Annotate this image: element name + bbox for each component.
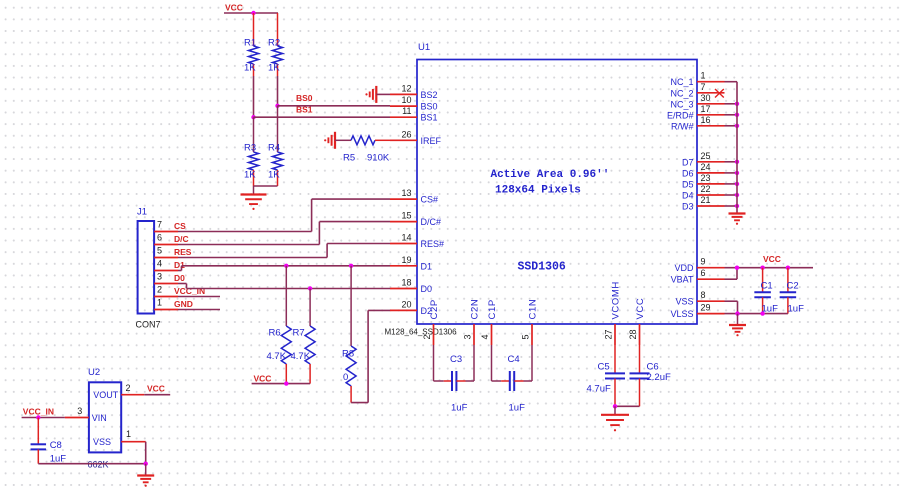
svg-text:2.2uF: 2.2uF xyxy=(647,372,671,383)
svg-text:SSD1306: SSD1306 xyxy=(518,261,566,274)
wire R3/R4 bottoms xyxy=(254,185,278,187)
svg-text:26: 26 xyxy=(401,129,411,139)
svg-text:VCC: VCC xyxy=(254,374,272,384)
wire pin to right bus xyxy=(725,205,738,207)
wire CS net xyxy=(178,199,390,231)
net label BS0 xyxy=(296,93,313,103)
junction VSS/VLSS xyxy=(735,311,739,315)
junction right bus xyxy=(735,193,739,197)
svg-text:28: 28 xyxy=(628,329,638,339)
wire pin to right bus xyxy=(725,172,738,174)
wire R8 bottom to D2 xyxy=(351,310,390,402)
svg-text:D0: D0 xyxy=(421,284,433,294)
svg-text:CS#: CS# xyxy=(421,195,439,205)
capacitor C5 4.7uF xyxy=(587,345,626,406)
resistor R3 xyxy=(244,117,259,186)
junction C2 top xyxy=(786,266,790,270)
wire BS1 net to U1 pin 11 xyxy=(254,116,391,118)
U1 pin 29 VLSS xyxy=(670,303,724,320)
svg-text:8: 8 xyxy=(701,290,706,300)
ground below VSS xyxy=(729,314,746,337)
U1 pin 14 RES# xyxy=(390,233,444,250)
wire GND stub from J1 xyxy=(178,309,220,311)
junction right bus xyxy=(735,160,739,164)
wire VSS down to ground rail xyxy=(145,442,147,464)
svg-text:19: 19 xyxy=(401,255,411,265)
capacitor C2 1uF xyxy=(780,268,804,315)
wire pin to right bus xyxy=(725,183,738,185)
wire C2P down to C3 xyxy=(434,345,452,381)
junction VSS/ground rail xyxy=(144,462,148,466)
svg-text:128x64 Pixels: 128x64 Pixels xyxy=(495,185,581,197)
svg-text:C6: C6 xyxy=(647,362,659,373)
no-connect X on NC_2 xyxy=(715,89,724,98)
svg-text:10: 10 xyxy=(401,95,411,105)
wire right vertical bus xyxy=(736,82,738,213)
junction right bus xyxy=(735,124,739,128)
U1 pin 6 VBAT xyxy=(671,268,725,285)
capacitor C8 1uF xyxy=(31,418,67,465)
svg-text:C1: C1 xyxy=(761,281,773,292)
svg-text:25: 25 xyxy=(701,151,711,161)
junction R6/VCC rail xyxy=(284,381,288,385)
U1 pin 18 D0 xyxy=(390,278,432,295)
text 662K under U2 xyxy=(88,460,109,470)
svg-text:U1: U1 xyxy=(418,42,430,53)
svg-text:11: 11 xyxy=(402,106,411,116)
op IC U1 SSD1306 body xyxy=(417,42,697,324)
junction VCC_IN / C8 xyxy=(36,415,40,419)
wire C3 to C2N xyxy=(456,345,474,381)
ground below C5/C6 xyxy=(601,406,629,431)
svg-text:R2: R2 xyxy=(268,38,280,49)
wire pin to right bus xyxy=(725,194,738,196)
svg-text:BS1: BS1 xyxy=(421,113,438,123)
connector J1 body xyxy=(137,207,154,314)
wire pin to right bus xyxy=(725,103,738,105)
svg-text:6: 6 xyxy=(701,268,706,278)
svg-text:GND: GND xyxy=(174,299,193,309)
svg-text:C3: C3 xyxy=(450,354,462,365)
svg-text:D1: D1 xyxy=(421,261,433,271)
svg-text:3: 3 xyxy=(77,406,82,416)
svg-text:VIN: VIN xyxy=(92,413,107,423)
ground below right bus xyxy=(729,214,746,225)
U1 pin 5 C1N xyxy=(521,299,539,345)
U1 pin 1 NC_1 xyxy=(670,71,724,88)
ground below R3/R4 xyxy=(241,186,267,210)
svg-text:R7: R7 xyxy=(293,328,305,339)
net label VCC (U2 out) xyxy=(147,384,165,394)
svg-text:2: 2 xyxy=(422,334,432,339)
U1 pin 8 VSS xyxy=(675,290,724,307)
svg-text:1uF: 1uF xyxy=(509,403,526,414)
svg-text:D7: D7 xyxy=(682,157,694,167)
wire VCC_IN to VIN xyxy=(22,417,65,419)
svg-text:VSS: VSS xyxy=(93,437,111,447)
svg-text:4.7uF: 4.7uF xyxy=(587,384,611,395)
svg-text:1: 1 xyxy=(701,71,706,81)
svg-text:Active Area 0.96'': Active Area 0.96'' xyxy=(491,169,610,181)
U1 pin 2 C2P xyxy=(422,299,440,345)
svg-text:3: 3 xyxy=(463,334,473,339)
U1 pin 25 D7 xyxy=(682,151,725,168)
svg-text:VCC_IN: VCC_IN xyxy=(174,286,205,296)
svg-text:1uF: 1uF xyxy=(451,403,468,414)
wire D/C net xyxy=(178,222,390,245)
regulator U2 body xyxy=(88,367,121,452)
wire pin to right bus xyxy=(725,125,738,127)
U1 pin 28 VCC xyxy=(628,298,646,345)
resistor R5 910K xyxy=(343,136,390,164)
U2 pin 2 VOUT xyxy=(93,383,144,400)
U1 pin 30 NC_3 xyxy=(670,93,724,110)
junction VCC rail / R1 xyxy=(251,11,255,15)
J1 pin 6 net D/C xyxy=(154,233,189,245)
svg-text:27: 27 xyxy=(604,329,614,339)
svg-text:7: 7 xyxy=(701,82,706,92)
wire VDD to VCC rail xyxy=(725,267,814,269)
svg-text:1K: 1K xyxy=(244,63,256,74)
svg-text:20: 20 xyxy=(401,299,411,309)
svg-text:5: 5 xyxy=(521,334,531,339)
junction C5 bottom xyxy=(613,404,617,408)
svg-text:C2: C2 xyxy=(787,281,799,292)
junction D1/R8 xyxy=(349,264,353,268)
svg-text:1K: 1K xyxy=(268,63,280,74)
junction C1 top xyxy=(760,266,764,270)
U1 pin 13 CS# xyxy=(390,188,438,205)
wire R2 to BS0 node xyxy=(277,76,279,106)
wire VCC rail top-left xyxy=(224,12,278,14)
U2 pin 3 VIN xyxy=(65,406,107,423)
U1 pin 20 D2 xyxy=(390,299,432,316)
wire U2 ground rail xyxy=(38,463,145,465)
svg-text:24: 24 xyxy=(701,162,711,172)
J1 pin 2 net VCC_IN xyxy=(154,285,205,297)
svg-text:R1: R1 xyxy=(244,38,256,49)
svg-text:BS0: BS0 xyxy=(421,102,438,112)
junction BS0 xyxy=(275,104,279,108)
svg-text:9: 9 xyxy=(701,257,706,267)
svg-text:1uF: 1uF xyxy=(50,454,67,465)
svg-text:14: 14 xyxy=(401,233,411,243)
svg-text:18: 18 xyxy=(401,278,411,288)
svg-text:0: 0 xyxy=(343,372,348,383)
wire D1 net xyxy=(178,266,390,271)
svg-text:CS: CS xyxy=(174,221,186,231)
J1 pin 4 net D1 xyxy=(154,259,185,271)
svg-text:RES: RES xyxy=(174,247,192,257)
svg-text:17: 17 xyxy=(701,104,711,114)
svg-text:VCC: VCC xyxy=(225,3,243,13)
junction BS1 xyxy=(251,115,255,119)
svg-text:VCOMH: VCOMH xyxy=(610,281,621,319)
resistor R4 xyxy=(268,106,283,186)
wire BS0 net to U1 pin 10 xyxy=(278,105,391,107)
svg-text:VCC_IN: VCC_IN xyxy=(23,407,54,417)
text SSD1306 inside U1 xyxy=(518,261,566,274)
svg-text:BS2: BS2 xyxy=(421,90,438,100)
svg-text:RES#: RES# xyxy=(421,239,445,249)
wire pin to right bus xyxy=(725,161,738,163)
svg-text:NC_1: NC_1 xyxy=(670,77,693,87)
U1 pin 22 D4 xyxy=(682,184,725,201)
svg-text:C8: C8 xyxy=(50,440,62,451)
wire ground to R5 xyxy=(335,139,351,141)
svg-text:D4: D4 xyxy=(682,191,694,201)
svg-text:1K: 1K xyxy=(244,170,256,181)
U1 pin 23 D5 xyxy=(682,173,725,190)
svg-text:IREF: IREF xyxy=(421,136,442,146)
text 128x64 Pixels inside U1 xyxy=(495,185,581,197)
resistor R2 xyxy=(268,13,283,76)
capacitor C6 2.2uF xyxy=(630,345,671,406)
svg-text:C1P: C1P xyxy=(487,299,498,319)
U1 pin 9 VDD xyxy=(674,257,724,274)
svg-text:D/C#: D/C# xyxy=(421,217,442,227)
svg-text:R4: R4 xyxy=(268,143,280,154)
U1 pin 26 IREF xyxy=(390,129,442,146)
junction right bus xyxy=(735,102,739,106)
U1 pin 3 C2N xyxy=(463,299,481,345)
svg-text:VCC: VCC xyxy=(635,298,646,320)
svg-text:7: 7 xyxy=(157,220,162,230)
net label VCC (pull-ups) xyxy=(254,374,272,384)
J1 pin 7 net CS xyxy=(154,220,186,232)
svg-text:910K: 910K xyxy=(367,153,390,164)
svg-text:R6: R6 xyxy=(269,328,281,339)
net label VCC_IN (U2 in) xyxy=(23,407,54,417)
U1 pin 27 VCOMH xyxy=(604,281,622,345)
svg-text:D3: D3 xyxy=(682,202,694,212)
wire C4 to C1N xyxy=(514,345,532,381)
svg-text:D/C: D/C xyxy=(174,234,189,244)
svg-text:J1: J1 xyxy=(137,207,147,218)
svg-text:M128_64_SSD1306: M128_64_SSD1306 xyxy=(385,328,458,337)
resistor R1 xyxy=(244,13,259,76)
junction D0/R7 xyxy=(308,286,312,290)
junction right bus xyxy=(735,204,739,208)
capacitor C4 1uF xyxy=(508,354,526,414)
svg-text:D5: D5 xyxy=(682,179,694,189)
svg-text:VOUT: VOUT xyxy=(93,390,119,400)
svg-text:3: 3 xyxy=(157,272,162,282)
net label VCC (right) xyxy=(763,254,781,264)
wire VCC_IN stub from J1 xyxy=(178,296,220,298)
svg-text:NC_2: NC_2 xyxy=(670,88,693,98)
junction right bus xyxy=(735,113,739,117)
svg-text:D0: D0 xyxy=(174,273,185,283)
resistor R6 4.7K xyxy=(267,266,292,384)
U1 pin 15 D/C# xyxy=(390,211,441,228)
svg-text:C1N: C1N xyxy=(527,299,538,320)
svg-text:E/RD#: E/RD# xyxy=(667,110,694,120)
svg-text:VCC: VCC xyxy=(763,254,781,264)
svg-text:4: 4 xyxy=(157,259,162,269)
junction VBAT/VDD xyxy=(735,266,739,270)
svg-text:VCC: VCC xyxy=(147,384,165,394)
svg-text:23: 23 xyxy=(701,173,711,183)
J1 pin 1 net GND xyxy=(154,298,193,310)
text M128_64_SSD1306 under U1 xyxy=(385,328,458,337)
U1 pin 10 BS0 xyxy=(390,95,438,112)
U1 pin 16 R/W# xyxy=(671,115,725,132)
capacitor C1 1uF xyxy=(754,268,778,315)
text Active Area inside U1 xyxy=(491,169,610,181)
wire D0 net xyxy=(178,284,390,289)
svg-text:2: 2 xyxy=(157,285,162,295)
svg-text:12: 12 xyxy=(401,83,411,93)
wire R1 to BS1 node xyxy=(253,76,255,117)
U1 pin 4 C1P xyxy=(480,299,498,345)
svg-text:D6: D6 xyxy=(682,168,694,178)
svg-text:C2P: C2P xyxy=(429,299,440,319)
ground below U2 xyxy=(137,464,154,487)
svg-text:15: 15 xyxy=(401,211,411,221)
resistor R7 4.7K xyxy=(291,289,316,384)
svg-text:VSS: VSS xyxy=(675,297,693,307)
net label BS1 xyxy=(296,105,313,115)
svg-text:C4: C4 xyxy=(508,354,520,365)
svg-text:R5: R5 xyxy=(343,153,355,164)
svg-text:1K: 1K xyxy=(268,170,280,181)
wire BS2 ground to U1 pin 12 xyxy=(376,93,390,95)
svg-text:4.7K: 4.7K xyxy=(267,351,287,362)
svg-text:1: 1 xyxy=(126,429,131,439)
ground for R5 (rotated) xyxy=(324,132,335,149)
svg-text:C5: C5 xyxy=(598,362,610,373)
svg-text:2: 2 xyxy=(126,383,131,393)
svg-text:13: 13 xyxy=(401,188,411,198)
svg-text:29: 29 xyxy=(701,303,711,313)
U1 pin 17 E/RD# xyxy=(667,104,725,121)
svg-text:R8: R8 xyxy=(342,349,354,360)
svg-text:6: 6 xyxy=(157,233,162,243)
ground on BS2 (rotated) xyxy=(365,86,376,103)
capacitor C3 1uF xyxy=(450,354,468,414)
junction C1 bottom xyxy=(760,311,764,315)
wire VOUT to VCC xyxy=(144,394,170,396)
wire VSS down xyxy=(725,301,738,313)
U1 pin 21 D3 xyxy=(682,195,725,212)
U1 pin 24 D6 xyxy=(682,162,725,179)
svg-text:22: 22 xyxy=(701,184,711,194)
svg-text:CON7: CON7 xyxy=(136,320,161,330)
svg-text:C2N: C2N xyxy=(469,299,480,320)
wire VBAT up to VDD rail xyxy=(725,268,738,280)
svg-text:U2: U2 xyxy=(88,367,100,378)
wire VCC rail for pull-ups xyxy=(252,383,311,385)
junction D1/R6 xyxy=(284,264,288,268)
svg-text:1: 1 xyxy=(157,298,162,308)
svg-text:VLSS: VLSS xyxy=(670,309,693,319)
U1 pin 12 BS2 xyxy=(390,83,438,100)
svg-text:4.7K: 4.7K xyxy=(291,351,311,362)
junction right bus xyxy=(735,182,739,186)
U1 pin 19 D1 xyxy=(390,255,432,272)
U1 pin 11 BS1 xyxy=(390,106,438,123)
svg-text:VDD: VDD xyxy=(674,263,694,273)
wire C1P down to C4 xyxy=(492,345,510,381)
svg-text:21: 21 xyxy=(701,195,711,205)
svg-text:BS0: BS0 xyxy=(296,93,313,103)
svg-text:NC_3: NC_3 xyxy=(670,99,693,109)
svg-text:VBAT: VBAT xyxy=(671,275,694,285)
svg-text:5: 5 xyxy=(157,246,162,256)
wire pin to right bus xyxy=(725,114,738,116)
U2 pin 1 VSS xyxy=(93,429,146,447)
wire NC_1 to right bus corner xyxy=(725,81,738,83)
power label VCC (top left) xyxy=(225,3,243,13)
svg-text:R/W#: R/W# xyxy=(671,121,694,131)
wire C6 bottom to C5 bottom xyxy=(615,405,640,407)
svg-text:16: 16 xyxy=(701,115,711,125)
text CON7 xyxy=(136,320,161,330)
svg-text:1uF: 1uF xyxy=(788,304,805,315)
U1 pin 7 NC_2 xyxy=(670,82,724,99)
junction right bus xyxy=(735,171,739,175)
svg-text:R3: R3 xyxy=(244,143,256,154)
svg-text:4: 4 xyxy=(480,334,490,339)
resistor R8 0 ohm xyxy=(342,266,356,403)
wire RES net xyxy=(178,244,390,258)
J1 pin 3 net D0 xyxy=(154,272,185,284)
wire VLSS rail xyxy=(725,313,788,315)
svg-text:30: 30 xyxy=(701,93,711,103)
J1 pin 5 net RES xyxy=(154,246,192,258)
